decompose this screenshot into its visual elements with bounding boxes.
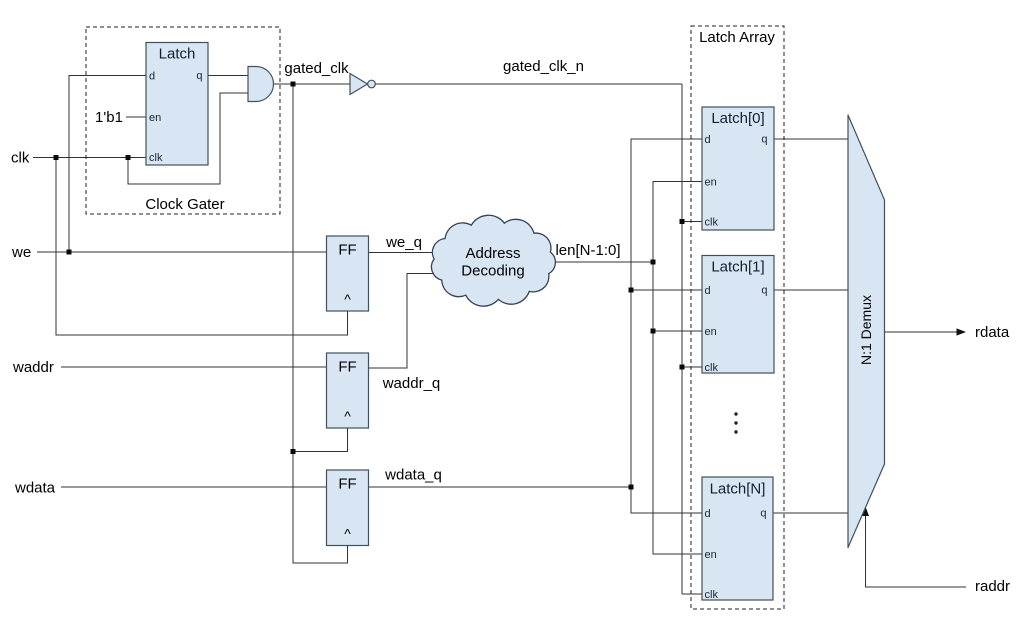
svg-text:q: q	[761, 285, 767, 297]
svg-text:en: en	[705, 326, 717, 338]
wire clk to FF1 clock (down-right-up)	[56, 158, 348, 336]
svg-text:d: d	[149, 71, 155, 83]
svg-text:1'b1: 1'b1	[95, 109, 123, 126]
svg-text:len[N-1:0]: len[N-1:0]	[555, 242, 620, 259]
svg-text:waddr_q: waddr_q	[382, 375, 441, 392]
junction gated_clk node	[291, 82, 296, 87]
junction gated_clk_n Latch[1] clk branch	[680, 365, 685, 370]
svg-text:^: ^	[344, 291, 351, 307]
clock gater boundary	[86, 27, 280, 214]
AND gate U2	[248, 67, 274, 102]
wire raddr input with arrowhead into demux select	[862, 507, 966, 588]
svg-text:d: d	[705, 134, 711, 146]
svg-text:Latch[0]: Latch[0]	[711, 110, 764, 127]
svg-text:en: en	[705, 177, 717, 189]
wire len vertical with Latch[0] and Latch[N] en branches	[653, 182, 702, 555]
svg-text:en: en	[149, 112, 161, 124]
svg-text:waddr: waddr	[12, 359, 54, 376]
wire gated_clk branch to FF2 clock	[293, 428, 348, 452]
svg-text:wdata_q: wdata_q	[384, 467, 442, 484]
svg-text:N:1 Demux: N:1 Demux	[858, 295, 874, 365]
svg-text:d: d	[705, 285, 711, 297]
svg-text:we_q: we_q	[385, 234, 422, 251]
svg-text:en: en	[705, 549, 717, 561]
svg-text:clk: clk	[705, 217, 719, 229]
inverter U3	[350, 74, 375, 95]
svg-text:we: we	[11, 244, 31, 261]
wire gated_clk_n branch to Latch[N] clk	[682, 593, 702, 595]
svg-text:Address: Address	[465, 245, 520, 262]
wire rdata output with arrowhead	[885, 328, 967, 335]
svg-text:gated_clk_n: gated_clk_n	[503, 58, 584, 75]
svg-text:clk: clk	[149, 152, 163, 164]
svg-text:gated_clk: gated_clk	[284, 60, 349, 77]
wire Latch[1] q to demux	[774, 289, 848, 291]
svg-text:FF: FF	[338, 242, 356, 259]
address decoding cloud	[431, 215, 555, 306]
wire 1'b1 stub to latch en	[126, 116, 146, 118]
svg-text:Latch[1]: Latch[1]	[711, 259, 764, 276]
wire latch q to AND gate upper input	[208, 75, 248, 77]
svg-text:Clock Gater: Clock Gater	[145, 196, 224, 213]
wire we input trunk	[37, 251, 327, 253]
wire clk branch under latch to AND gate lower input	[128, 93, 248, 184]
svg-text:^: ^	[344, 526, 351, 542]
svg-text:q: q	[760, 508, 766, 520]
wire wdata_q branch to Latch[1] d	[631, 289, 702, 291]
svg-text:Decoding: Decoding	[461, 263, 524, 280]
junction len Latch[1] en branch	[651, 329, 656, 334]
svg-text:clk: clk	[11, 150, 30, 167]
latch array boundary	[691, 26, 784, 609]
svg-text:rdata: rdata	[975, 324, 1010, 341]
svg-text:q: q	[196, 70, 202, 82]
latch U4 Latch[0]	[702, 107, 774, 230]
wire latch U1 d input from we net	[69, 76, 146, 253]
wire wdata input trunk	[61, 486, 327, 488]
flip-flop FF2 (waddr)	[327, 353, 369, 428]
wire Latch[N] q to demux	[773, 512, 848, 514]
svg-text:Latch: Latch	[159, 46, 196, 63]
demux U7 N:1 Demux	[848, 115, 885, 548]
latch U6 Latch[N]	[702, 477, 773, 601]
wire len branch to Latch[1] en	[653, 330, 702, 332]
wire wdata_q FF3 to latch array	[369, 486, 632, 488]
svg-text:raddr: raddr	[975, 578, 1010, 595]
svg-text:FF: FF	[338, 359, 356, 376]
svg-text:FF: FF	[338, 476, 356, 493]
wire we_q FF1 to cloud	[369, 251, 456, 253]
junction gated_clk FF2 branch	[291, 449, 296, 454]
ellipsis between latches	[734, 412, 737, 433]
wire len[N-1:0] cloud to latch array	[540, 261, 653, 263]
svg-text:^: ^	[344, 408, 351, 424]
junction len input	[651, 260, 656, 265]
latch U1 (clock gater latch)	[146, 43, 208, 166]
svg-text:clk: clk	[705, 589, 719, 601]
svg-text:wdata: wdata	[14, 480, 56, 497]
wire gated_clk_n branch to Latch[1] clk	[682, 366, 702, 368]
wire gated_clk vertical to FF2/FF3 clocks	[293, 84, 348, 563]
junction clk-under-latch branch	[126, 155, 131, 160]
junction clk-to-FF1	[54, 155, 59, 160]
wire AND output gated_clk to inverter	[274, 83, 351, 85]
svg-text:Latch[N]: Latch[N]	[710, 481, 766, 498]
wire waddr input trunk	[61, 366, 327, 368]
wire gated_clk_n horizontal run	[376, 83, 683, 85]
wire gated_clk_n branch to Latch[0] clk	[682, 221, 702, 223]
wire clk input trunk	[33, 157, 146, 159]
svg-text:Latch Array: Latch Array	[699, 29, 775, 46]
svg-text:clk: clk	[705, 362, 719, 374]
flip-flop FF3 (wdata)	[327, 470, 369, 546]
junction wdata_q input	[629, 485, 634, 490]
wire waddr_q FF2 to cloud	[369, 274, 451, 369]
wire gated_clk_n vertical distribution	[681, 84, 683, 594]
junction gated_clk_n Latch[0] clk branch	[680, 219, 685, 224]
svg-text:d: d	[705, 508, 711, 520]
junction wdata_q Latch[1] d branch	[629, 288, 634, 293]
svg-text:q: q	[761, 134, 767, 146]
latch U5 Latch[1]	[702, 256, 774, 375]
junction we / latch d	[67, 250, 72, 255]
wire Latch[0] q to demux	[774, 138, 848, 140]
flip-flop FF1 (we)	[327, 236, 369, 311]
wire wdata_q vertical with Latch[0] and Latch[N] d branches	[631, 139, 702, 513]
